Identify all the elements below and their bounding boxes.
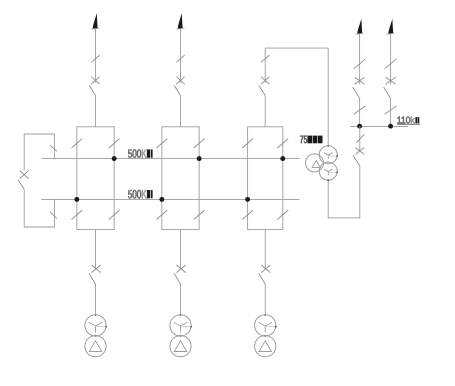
cubicle Q3 lower-left disconnect tick <box>242 210 253 219</box>
transformer T3 neutral lead <box>265 326 276 328</box>
node T3 primary <box>264 314 266 316</box>
switch blade T3 <box>259 273 266 284</box>
cubicle Q3 upper-left disconnect tick <box>242 139 253 148</box>
switch blade T1 <box>89 273 96 284</box>
breaker cubicle Q3 box <box>248 127 283 230</box>
node T3 winding junction <box>264 335 266 337</box>
transformer T4 winding2 neutral lead <box>328 171 337 173</box>
node T1 neutral <box>105 326 107 328</box>
fuse/section X T3 <box>261 265 270 273</box>
wire Q3 outgoing <box>264 230 266 270</box>
label 500K bus2 <box>128 190 147 198</box>
transformer T4 winding 3 (delta) <box>306 154 324 172</box>
transformer T4 winding 1 (Y) <box>319 146 337 164</box>
transformer T1 primary winding (Y) <box>85 315 106 336</box>
wire W1 drop <box>95 29 97 83</box>
junction dot Q1-bus2 <box>74 197 79 202</box>
fuse/section X W3 <box>261 77 269 84</box>
wire W2 to cubicle <box>180 96 182 127</box>
transformer T3 primary winding (Y) <box>255 315 276 336</box>
cubicle Q3 lower-right disconnect tick <box>277 210 288 219</box>
junction dot Q3-bus1 <box>280 156 285 161</box>
disconnect tick W1 <box>91 55 99 62</box>
switch blade QS1 <box>89 85 95 95</box>
transformer T4 winding1 neutral lead <box>328 155 337 157</box>
incoming line W2 arrowhead <box>178 13 183 28</box>
label 500K bus1 <box>128 149 141 157</box>
disconnect tick W2 <box>176 55 184 62</box>
cubicle Q1 lower-right disconnect tick <box>109 210 120 219</box>
breaker cubicle Q2 box <box>162 127 199 230</box>
wire Q2 outgoing <box>180 230 182 270</box>
bypass fuse/section X <box>20 171 29 179</box>
wire W3 horizontal to transformer T4 <box>265 47 328 49</box>
junction dot W4-bus3 <box>357 124 362 129</box>
disconnect tick W4 <box>354 59 366 69</box>
node T4 winding1 neutral <box>336 155 338 157</box>
node T4 primary <box>327 145 329 147</box>
fuse/section X W5 <box>386 77 396 84</box>
transformer T4 winding 2 (Y) <box>319 162 337 180</box>
busbar 1 (500K) <box>41 158 299 160</box>
wire to T4 secondary <box>328 166 360 218</box>
busbar 3 (110k) <box>350 125 408 127</box>
cubicle Q2 upper-left disconnect tick <box>156 139 167 148</box>
disconnect tick W3 <box>261 55 269 62</box>
wire W5 drop <box>390 34 392 85</box>
bypass switch blade <box>18 180 24 190</box>
junction dot W5-bus3 <box>388 124 393 129</box>
transformer T2 primary winding (Y) <box>170 315 191 336</box>
junction dot Q3-bus2 <box>245 197 250 202</box>
transformer T3 secondary winding (delta) <box>255 336 276 357</box>
disconnect tick W4 lower <box>354 106 366 114</box>
node T2 winding junction <box>180 335 182 337</box>
switch blade QS3 <box>259 85 265 95</box>
bypass lower disconnect tick <box>50 212 57 219</box>
busbar 2 (500K) <box>41 198 299 200</box>
fuse/section X W2 <box>176 77 184 84</box>
wire to transformer T2 <box>180 285 182 315</box>
node T4 bottom <box>327 179 329 181</box>
wire W3 vertical top <box>264 48 266 82</box>
cubicle Q2 lower-left disconnect tick <box>156 210 167 219</box>
incoming line W1 arrow base tick <box>91 28 99 29</box>
fuse/section X T1 <box>92 265 101 273</box>
incoming line W4 arrowhead <box>357 19 362 34</box>
disconnect tick W5 lower <box>385 106 397 114</box>
cubicle Q2 upper-right disconnect tick <box>194 139 205 148</box>
transformer T2 secondary winding (delta) <box>170 336 191 357</box>
disconnect tick bus3 drop <box>356 134 364 143</box>
wire to transformer T3 <box>264 285 266 315</box>
node T2 neutral <box>190 326 192 328</box>
fuse/section X T2 <box>177 265 186 273</box>
wire Q1 outgoing <box>95 230 97 270</box>
wire W4 drop <box>359 34 361 85</box>
switch blade bus3 drop <box>353 155 360 165</box>
bypass wire upper <box>24 134 54 170</box>
incoming line W1 arrowhead <box>93 13 98 28</box>
label 75M (T4 rating) <box>300 136 307 144</box>
cubicle Q3 upper-right disconnect tick <box>277 139 288 148</box>
cubicle Q1 upper-right disconnect tick <box>109 139 120 148</box>
wire W5 to bus3 <box>390 98 392 126</box>
wire bus3 drop <box>359 126 361 152</box>
bypass upper disconnect tick <box>50 145 57 151</box>
node T1 winding junction <box>95 335 97 337</box>
fuse/section X bus3 drop <box>356 148 365 155</box>
incoming line W2 arrow base tick <box>176 28 184 29</box>
wire W2 drop <box>180 29 182 83</box>
junction dot Q2-bus2 <box>159 197 164 202</box>
transformer T1 secondary winding (delta) <box>85 336 106 357</box>
switch blade QS2 <box>174 85 180 95</box>
switch blade W5 <box>384 87 391 98</box>
incoming line W5 arrowhead <box>388 19 393 34</box>
wire W3 to cubicle <box>264 96 266 127</box>
node T3 neutral <box>275 326 277 328</box>
wire W4 to bus3 <box>359 98 361 126</box>
cubicle Q1 lower-left disconnect tick <box>71 210 82 219</box>
cubicle Q1 upper-left disconnect tick <box>71 139 82 148</box>
breaker cubicle Q1 box <box>77 127 114 230</box>
wire T4 primary drop <box>327 48 329 146</box>
incoming line W4 arrow base tick <box>355 33 363 34</box>
wire W1 to cubicle <box>95 96 97 127</box>
node T4 winding2 neutral <box>336 171 338 173</box>
cubicle Q2 lower-right disconnect tick <box>194 210 205 219</box>
disconnect tick W5 <box>385 59 397 69</box>
switch blade T2 <box>174 273 181 284</box>
fuse/section X W4 <box>355 77 365 84</box>
fuse/section X W1 <box>91 77 99 84</box>
junction dot Q2-bus1 <box>197 156 202 161</box>
bypass wire lower <box>24 189 54 227</box>
junction dot Q1-bus1 <box>112 156 117 161</box>
node T1 primary <box>95 314 97 316</box>
transformer T2 neutral lead <box>181 326 192 328</box>
incoming line W5 arrow base tick <box>386 33 394 34</box>
wire to transformer T1 <box>95 285 97 315</box>
transformer T1 neutral lead <box>96 326 107 328</box>
label 110k underline <box>397 123 420 125</box>
label 110k <box>398 117 411 124</box>
node T2 primary <box>180 314 182 316</box>
switch blade W4 <box>353 87 360 98</box>
